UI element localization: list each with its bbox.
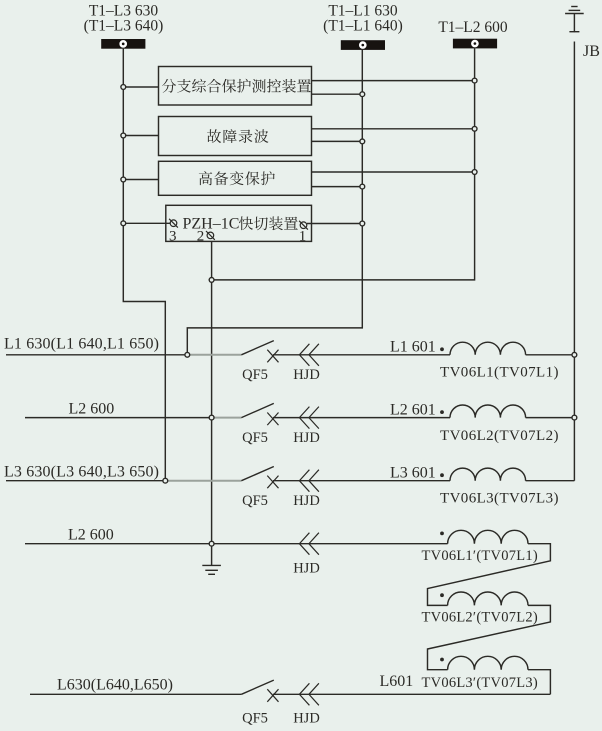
svg-text:QF5: QF5 [242, 430, 268, 446]
svg-text:TV06L3′(TV07L3): TV06L3′(TV07L3) [422, 675, 538, 691]
svg-text:TV06L2(TV07L2): TV06L2(TV07L2) [440, 428, 559, 444]
svg-text:HJD: HJD [293, 367, 320, 383]
svg-text:L1 601: L1 601 [390, 339, 436, 356]
svg-text:3: 3 [169, 228, 177, 244]
svg-text:PZH–1C: PZH–1C [183, 216, 240, 233]
svg-text:QF5: QF5 [242, 367, 268, 383]
svg-text:L3 630(L3 640,L3 650): L3 630(L3 640,L3 650) [4, 464, 159, 481]
svg-text:L2 601: L2 601 [390, 401, 436, 418]
svg-text:L1 630(L1 640,L1 650): L1 630(L1 640,L1 650) [4, 336, 159, 353]
svg-text:HJD: HJD [293, 561, 320, 577]
svg-text:TV06L3(TV07L3): TV06L3(TV07L3) [440, 491, 559, 507]
svg-text:HJD: HJD [293, 711, 320, 727]
svg-text:(T1–L1 640): (T1–L1 640) [323, 18, 403, 35]
svg-text:1: 1 [299, 228, 307, 244]
svg-text:T1–L2 600: T1–L2 600 [438, 19, 508, 36]
svg-text:HJD: HJD [293, 430, 320, 446]
svg-text:L3 601: L3 601 [390, 465, 436, 482]
svg-text:QF5: QF5 [242, 711, 268, 727]
svg-text:QF5: QF5 [242, 493, 268, 509]
svg-text:L601: L601 [380, 673, 414, 690]
svg-text:TV06L1(TV07L1): TV06L1(TV07L1) [440, 365, 559, 381]
svg-text:L630(L640,L650): L630(L640,L650) [57, 677, 173, 694]
svg-text:TV06L2′(TV07L2): TV06L2′(TV07L2) [422, 609, 538, 625]
svg-text:TV06L1′(TV07L1): TV06L1′(TV07L1) [422, 548, 538, 564]
svg-text:L2 600: L2 600 [69, 401, 115, 418]
svg-text:JB: JB [583, 43, 600, 60]
svg-text:L2 600: L2 600 [68, 527, 114, 544]
svg-text:(T1–L3 640): (T1–L3 640) [84, 18, 164, 35]
svg-text:HJD: HJD [293, 493, 320, 509]
